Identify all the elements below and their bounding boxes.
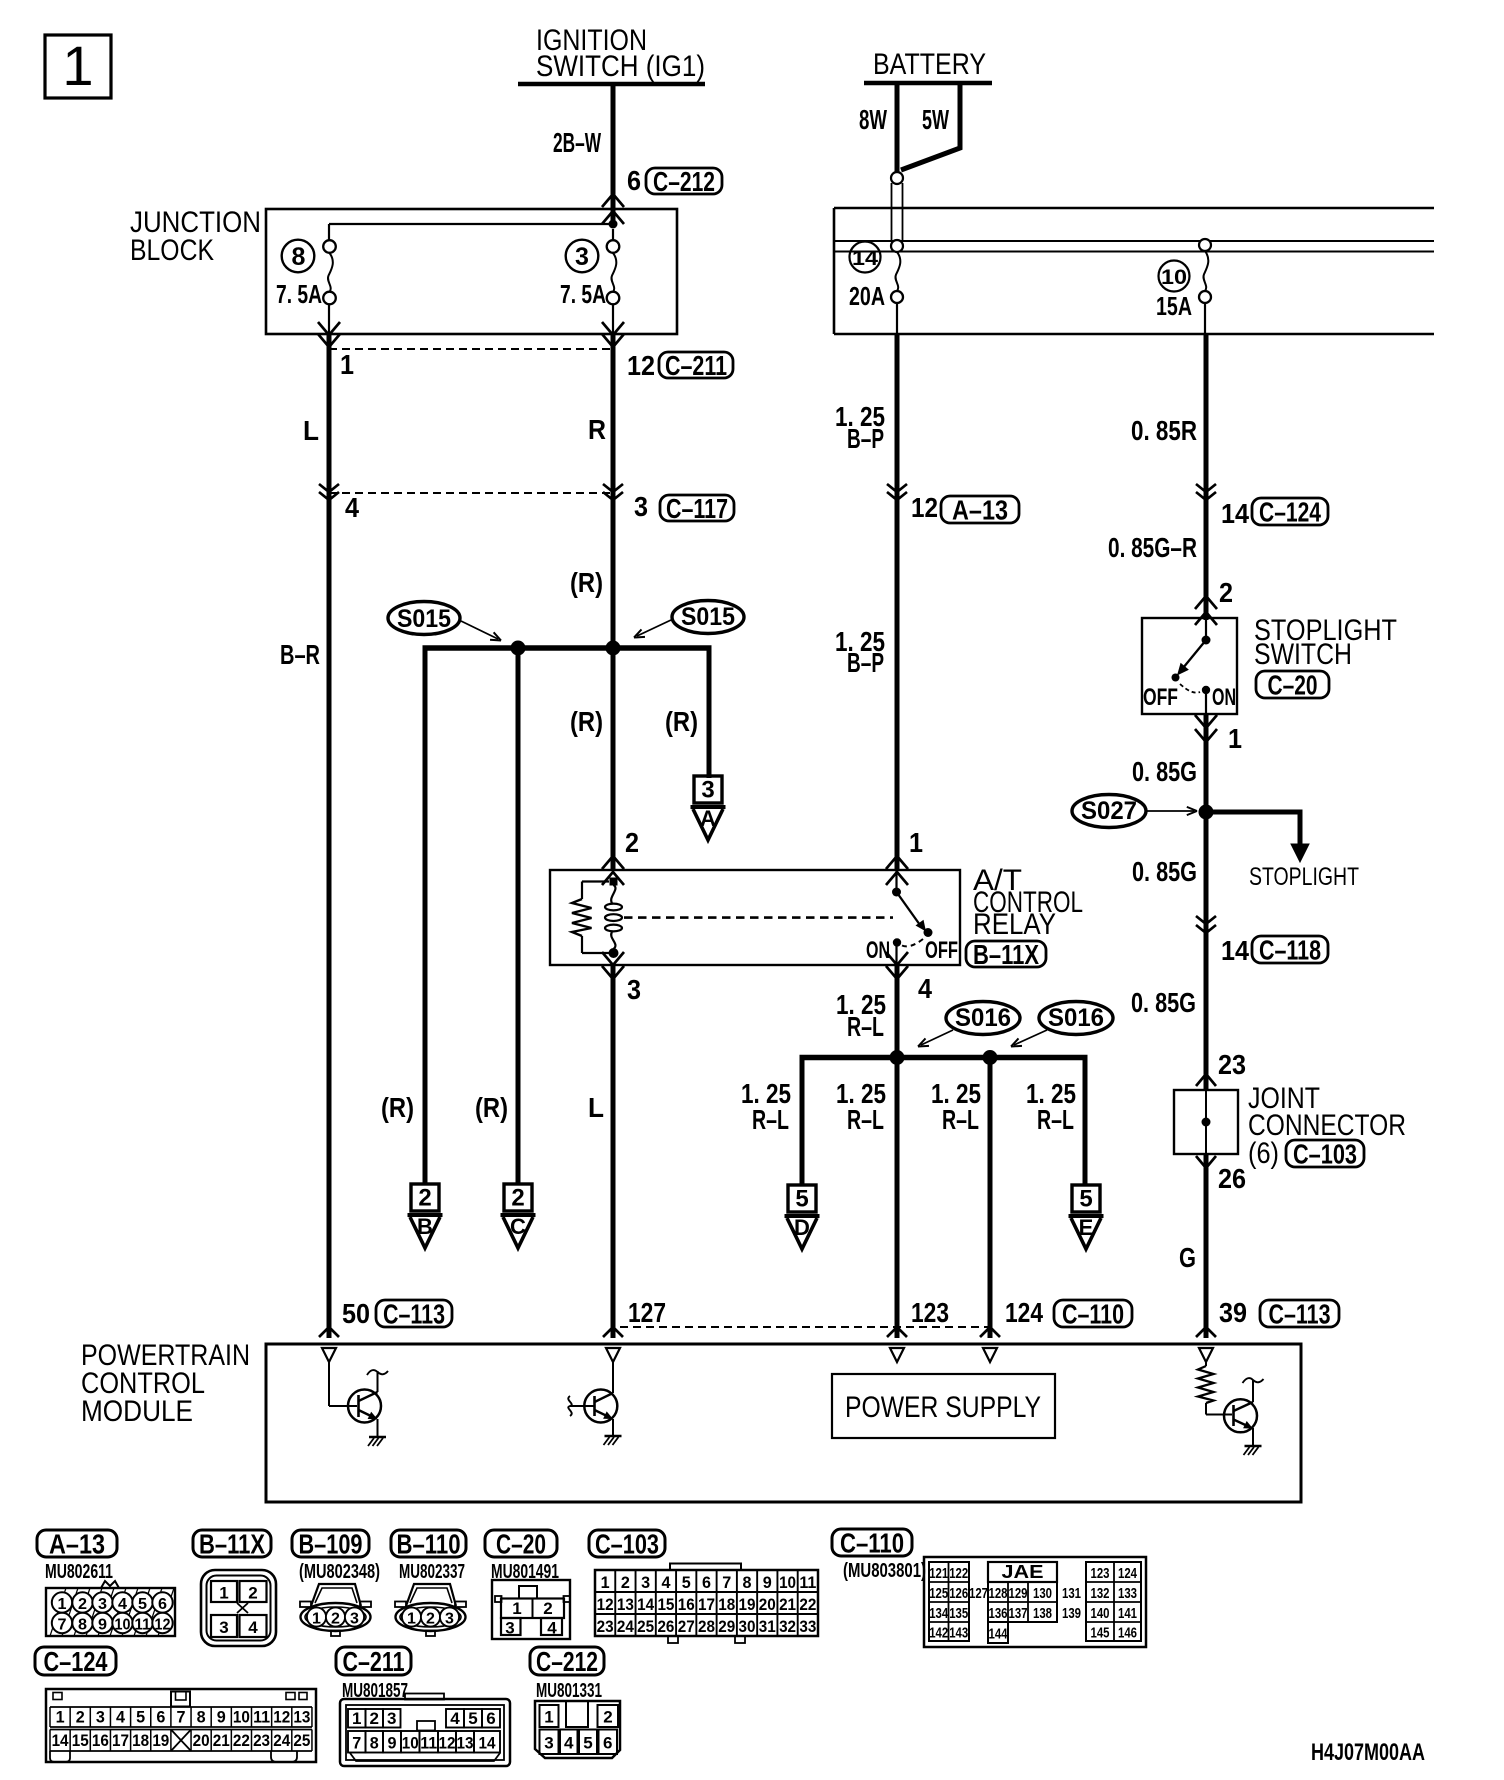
svg-text:23: 23 [253, 1731, 270, 1750]
wire label (R) branch B [381, 1092, 414, 1123]
svg-text:5: 5 [468, 1709, 477, 1728]
svg-text:1: 1 [512, 1599, 521, 1618]
svg-text:B–P: B–P [847, 423, 884, 454]
splice S027 arrow [1147, 807, 1197, 815]
relay/fuse box (right) [834, 208, 1434, 334]
wire R junction block to relay [611, 334, 616, 870]
connector C-20 pin diagram [492, 1580, 570, 1639]
svg-text:13: 13 [457, 1733, 474, 1752]
svg-text:13: 13 [617, 1595, 634, 1614]
svg-text:14: 14 [637, 1595, 654, 1614]
svg-text:10: 10 [233, 1708, 250, 1727]
svg-text:L: L [303, 415, 319, 446]
svg-text:8: 8 [743, 1573, 752, 1592]
wire end chevron at PCM pin 123 [887, 1327, 907, 1337]
A/T control relay box [550, 870, 960, 965]
svg-text:BLOCK: BLOCK [130, 234, 214, 267]
relay coil node [610, 878, 618, 886]
pin 50 label [342, 1298, 370, 1329]
wire 8W [895, 81, 900, 174]
svg-text:C–113: C–113 [1269, 1299, 1331, 1330]
splice S015 arrow left [461, 621, 501, 641]
joint connector (6) C-103 box [1174, 1090, 1238, 1154]
wire 1.25 R-L to PCM pin 123 [895, 1057, 900, 1338]
svg-text:(R): (R) [570, 567, 603, 598]
svg-text:144: 144 [989, 1625, 1008, 1642]
svg-text:127: 127 [628, 1297, 666, 1328]
svg-text:26: 26 [1218, 1163, 1246, 1194]
svg-text:S016: S016 [1048, 1004, 1104, 1032]
wire 1.25 B-P battery to relay [895, 334, 900, 870]
svg-text:39: 39 [1219, 1297, 1247, 1328]
wire label (R) upper [570, 567, 603, 598]
pin 6 label [627, 165, 641, 196]
svg-text:1: 1 [407, 1611, 416, 1628]
powertrain control module box [266, 1344, 1301, 1502]
splice S016 label right [1039, 1002, 1113, 1035]
svg-text:12: 12 [273, 1708, 290, 1727]
fuse 14 20A [849, 240, 903, 334]
svg-text:17: 17 [698, 1595, 715, 1614]
svg-text:4: 4 [918, 973, 932, 1004]
svg-text:7: 7 [176, 1708, 185, 1727]
svg-text:S015: S015 [397, 605, 451, 633]
svg-text:143: 143 [949, 1624, 968, 1641]
splice S027 label [1072, 795, 1146, 828]
svg-text:1: 1 [219, 1584, 228, 1603]
svg-text:3: 3 [505, 1619, 514, 1638]
wire label 0.85G above joint connector [1131, 987, 1196, 1018]
svg-text:18: 18 [718, 1595, 735, 1614]
svg-text:(R): (R) [475, 1092, 508, 1123]
svg-text:5: 5 [136, 1708, 145, 1727]
svg-text:134: 134 [929, 1605, 948, 1622]
wire branch to connector A [707, 648, 712, 778]
stoplight switch name [1254, 614, 1397, 671]
svg-text:14: 14 [52, 1731, 69, 1750]
svg-text:20A: 20A [849, 281, 885, 311]
wire branch to connector D [800, 1057, 805, 1185]
connector C-20 label [1256, 670, 1329, 701]
svg-text:4: 4 [345, 492, 359, 523]
svg-text:141: 141 [1118, 1605, 1137, 1622]
svg-text:29: 29 [718, 1617, 735, 1636]
connector A-13 chevrons [887, 484, 907, 500]
svg-text:30: 30 [739, 1617, 756, 1636]
off-page connector D [785, 1185, 820, 1249]
svg-text:3: 3 [634, 491, 648, 522]
relay mechanical dashed link [624, 916, 893, 919]
part number MU802337 [399, 1561, 465, 1583]
svg-text:10: 10 [402, 1733, 419, 1752]
wire label 1.25 B-P upper [835, 401, 885, 454]
svg-text:C–124: C–124 [44, 1646, 108, 1677]
stoplight switch entry chevrons [1195, 596, 1217, 625]
connector C-212 detail label [530, 1646, 604, 1677]
svg-text:C–118: C–118 [1259, 935, 1321, 966]
svg-text:6: 6 [156, 1708, 165, 1727]
svg-text:137: 137 [1009, 1605, 1028, 1622]
svg-text:8: 8 [197, 1708, 206, 1727]
svg-text:OFF: OFF [925, 937, 958, 964]
wire branch to stoplight [1206, 812, 1309, 862]
connector C-211 label [659, 350, 733, 381]
wire end chevron at PCM pin 124 [980, 1327, 1000, 1337]
svg-text:C–212: C–212 [536, 1646, 598, 1677]
svg-text:A–13: A–13 [952, 495, 1008, 526]
off-page connector C [501, 1184, 536, 1248]
svg-text:(R): (R) [665, 706, 698, 737]
svg-text:25: 25 [637, 1617, 654, 1636]
relay OFF label [925, 937, 958, 964]
svg-text:STOPLIGHT: STOPLIGHT [1249, 863, 1359, 891]
PCM pin 123 input [890, 1348, 904, 1362]
fuse 8 7.5A [276, 240, 336, 334]
svg-text:122: 122 [949, 1565, 968, 1582]
svg-text:2B–W: 2B–W [553, 127, 601, 158]
svg-text:B–R: B–R [280, 639, 320, 670]
wire 0.85G stoplight switch to splice [1204, 714, 1209, 1090]
svg-text:123: 123 [1091, 1565, 1110, 1582]
svg-text:C–20: C–20 [1268, 670, 1318, 701]
svg-text:26: 26 [657, 1617, 674, 1636]
svg-text:15: 15 [72, 1731, 89, 1750]
svg-text:SWITCH: SWITCH [1254, 638, 1352, 671]
wire 0.85R fuse 10 to stoplight switch [1204, 334, 1209, 620]
pin 4 label [345, 492, 359, 523]
splice S016 bus wire [800, 1055, 1088, 1061]
svg-text:8: 8 [292, 243, 306, 271]
node S016 splice dot right [983, 1050, 998, 1065]
svg-text:3: 3 [98, 1596, 107, 1613]
svg-text:2: 2 [625, 827, 639, 858]
relay switch contact [892, 870, 933, 965]
svg-text:23: 23 [597, 1617, 614, 1636]
wire label G [1179, 1242, 1196, 1273]
svg-text:21: 21 [213, 1731, 230, 1750]
svg-text:131: 131 [1062, 1585, 1081, 1602]
svg-text:12: 12 [627, 350, 655, 381]
svg-text:14: 14 [1221, 935, 1249, 966]
svg-text:5W: 5W [922, 104, 949, 135]
part number MU801331 [536, 1680, 602, 1702]
svg-text:4: 4 [564, 1734, 574, 1753]
svg-text:8: 8 [78, 1617, 87, 1634]
pin 124 label [1005, 1297, 1043, 1328]
svg-text:145: 145 [1091, 1624, 1110, 1641]
svg-text:3: 3 [96, 1708, 105, 1727]
connector C-103 pin diagram [595, 1564, 818, 1644]
power supply block in PCM [832, 1374, 1055, 1438]
svg-text:10: 10 [115, 1617, 131, 1634]
resistor R1 in PCM [1198, 1362, 1232, 1415]
svg-text:POWER SUPPLY: POWER SUPPLY [845, 1391, 1041, 1424]
pin 127 label [628, 1297, 666, 1328]
wire label L [303, 415, 319, 446]
connector C-110 label [1054, 1299, 1132, 1330]
splice S016 label left [946, 1002, 1020, 1035]
wire label 1.25 R-L pin 124 [931, 1078, 981, 1135]
svg-text:4: 4 [248, 1618, 258, 1637]
svg-text:11: 11 [135, 1617, 151, 1634]
svg-text:139: 139 [1062, 1605, 1081, 1622]
node S015 splice dot left [511, 641, 526, 656]
svg-text:13: 13 [293, 1708, 310, 1727]
svg-text:C–110: C–110 [1062, 1299, 1124, 1330]
wire end chevron at PCM pin 39 [1196, 1327, 1216, 1337]
svg-text:130: 130 [1033, 1585, 1052, 1602]
connector C-118 label [1252, 935, 1328, 966]
splice S015 label left [388, 602, 460, 635]
svg-text:7: 7 [58, 1617, 67, 1634]
wire end chevron at PCM pin 127 [603, 1327, 623, 1337]
svg-text:3: 3 [627, 974, 641, 1005]
svg-text:8: 8 [370, 1733, 379, 1752]
fuse 3 7.5A [560, 229, 619, 334]
node S016 splice dot left [890, 1050, 905, 1065]
svg-text:14: 14 [479, 1733, 496, 1752]
svg-text:15: 15 [657, 1595, 674, 1614]
svg-text:138: 138 [1033, 1605, 1052, 1622]
svg-text:3: 3 [219, 1618, 228, 1637]
svg-text:6: 6 [158, 1596, 167, 1613]
connector C-103 label [1286, 1139, 1364, 1170]
svg-text:12: 12 [597, 1595, 614, 1614]
svg-text:21: 21 [779, 1595, 796, 1614]
pin 14 label at C-124 [1221, 498, 1249, 529]
pin 14 label at C-118 [1221, 935, 1249, 966]
svg-text:1: 1 [1228, 723, 1242, 754]
svg-text:16: 16 [678, 1595, 695, 1614]
wire 1.25 R-L relay pin 4 to splice S016 [895, 965, 900, 1058]
pin 1 label at relay [909, 827, 923, 858]
svg-text:1: 1 [312, 1611, 321, 1628]
svg-text:136: 136 [989, 1605, 1008, 1622]
wire 2B-W from ignition switch [611, 82, 616, 222]
relay resistor [572, 882, 609, 954]
svg-text:C–113: C–113 [383, 1299, 445, 1330]
svg-text:9: 9 [98, 1617, 107, 1634]
connector C-117 label [660, 493, 734, 524]
svg-text:MU802337: MU802337 [399, 1561, 465, 1583]
pin 26 label [1218, 1163, 1246, 1194]
part number MU802611 [45, 1561, 113, 1583]
fuse 10 15A [1156, 239, 1211, 334]
svg-text:2: 2 [543, 1599, 552, 1618]
connector C-212 pin diagram [535, 1701, 620, 1758]
svg-text:4: 4 [116, 1708, 126, 1727]
connector C-211 pin diagram [340, 1694, 510, 1767]
svg-text:C: C [510, 1214, 526, 1239]
svg-text:1: 1 [56, 1708, 65, 1727]
pin 1 label below stoplight switch [1228, 723, 1242, 754]
A/T control relay name [973, 864, 1083, 941]
svg-text:2: 2 [76, 1708, 85, 1727]
svg-text:D: D [794, 1215, 810, 1240]
svg-text:B–109: B–109 [299, 1529, 363, 1560]
svg-text:R–L: R–L [847, 1011, 884, 1042]
part number (MU802348) [299, 1561, 380, 1583]
svg-text:R–L: R–L [942, 1104, 979, 1135]
svg-text:S015: S015 [681, 603, 735, 631]
svg-text:4: 4 [450, 1709, 460, 1728]
svg-text:2: 2 [418, 1185, 431, 1212]
joint connector entry chevron [1196, 1074, 1216, 1086]
svg-text:4: 4 [118, 1596, 127, 1613]
pin 23 label [1218, 1049, 1246, 1080]
svg-text:2: 2 [621, 1573, 630, 1592]
stoplight destination label [1249, 863, 1359, 891]
svg-text:9: 9 [217, 1708, 226, 1727]
svg-text:S016: S016 [955, 1004, 1011, 1032]
svg-text:OFF: OFF [1143, 684, 1178, 711]
wire label 1.25 R-L branch D [741, 1078, 791, 1135]
transistor Q3 in PCM [1224, 1378, 1264, 1446]
svg-text:5: 5 [138, 1596, 147, 1613]
connector C-117 chevrons on wire L [319, 484, 339, 500]
svg-text:10: 10 [779, 1573, 796, 1592]
svg-text:9: 9 [763, 1573, 772, 1592]
svg-text:19: 19 [152, 1731, 169, 1750]
joint connector name [1248, 1082, 1406, 1170]
svg-text:14: 14 [1221, 498, 1249, 529]
connector C-110 pin diagram [924, 1557, 1146, 1647]
wire label L lower [588, 1092, 604, 1123]
svg-text:146: 146 [1118, 1624, 1137, 1641]
connector B-11X label [966, 939, 1046, 970]
off-page connector B [408, 1184, 443, 1248]
svg-text:142: 142 [929, 1624, 948, 1641]
svg-text:C–211: C–211 [665, 350, 727, 381]
svg-text:11: 11 [420, 1733, 437, 1752]
wire end chevron at PCM pin 50 [319, 1327, 339, 1337]
node S027 splice dot [1199, 805, 1214, 820]
svg-text:11: 11 [253, 1708, 270, 1727]
wire L to PCM pin 50 [327, 334, 332, 1338]
pin 1 label [340, 349, 354, 380]
wire label (R) branch right [570, 706, 603, 737]
svg-text:3: 3 [350, 1611, 359, 1628]
svg-text:5: 5 [682, 1573, 691, 1592]
svg-text:C–20: C–20 [496, 1529, 546, 1560]
svg-text:2: 2 [511, 1185, 524, 1212]
connector C-113 label at pin 39 [1260, 1299, 1339, 1330]
svg-text:24: 24 [273, 1731, 290, 1750]
node S015 splice dot right [606, 641, 621, 656]
svg-text:7: 7 [352, 1733, 361, 1752]
connector A-13 pin diagram [46, 1581, 175, 1636]
svg-text:32: 32 [779, 1617, 796, 1636]
wire branch to connector B [423, 648, 428, 1184]
wire 5W [901, 81, 960, 170]
ignition switch (IG1) power source [518, 24, 705, 84]
stoplight switch box [1142, 618, 1237, 714]
connector C-124 label [1252, 497, 1328, 528]
splice S015 arrow right [634, 620, 671, 638]
connector C-117 chevrons on wire R [603, 484, 623, 500]
svg-text:SWITCH (IG1): SWITCH (IG1) [536, 50, 705, 83]
svg-text:2: 2 [78, 1596, 87, 1613]
svg-text:126: 126 [949, 1585, 968, 1602]
connector C-117 dashed boundary [329, 492, 613, 494]
svg-text:(6): (6) [1248, 1137, 1279, 1170]
transistor Q1 in PCM [329, 1362, 388, 1437]
connector C-211 dashed boundary [329, 348, 613, 350]
powertrain control module name [81, 1339, 250, 1428]
wire label 0.85G below splice [1132, 856, 1197, 887]
svg-text:123: 123 [911, 1297, 949, 1328]
svg-text:22: 22 [799, 1595, 816, 1614]
svg-text:(MU802348): (MU802348) [299, 1561, 380, 1583]
svg-text:6: 6 [702, 1573, 711, 1592]
connector C-113 label [376, 1299, 452, 1330]
connector B-109 pin diagram [300, 1584, 371, 1636]
junction block internal wire [329, 224, 613, 241]
wire label 0.85G upper [1132, 756, 1197, 787]
svg-text:6: 6 [603, 1734, 612, 1753]
connector B-110 detail label [391, 1529, 466, 1560]
PCM pin 127 input [606, 1348, 620, 1362]
drawing number H4J07M00AA [1311, 1739, 1425, 1766]
svg-text:50: 50 [342, 1298, 370, 1329]
connector C-212 label [646, 166, 722, 197]
svg-text:2: 2 [331, 1611, 340, 1628]
pin 3 label below relay [627, 974, 641, 1005]
splice S016 arrow left [918, 1030, 953, 1047]
svg-text:(R): (R) [570, 706, 603, 737]
battery power source [864, 48, 992, 83]
svg-text:7. 5A: 7. 5A [560, 279, 606, 309]
connector C-110 dashed boundary [620, 1326, 990, 1328]
connector C-20 detail label [485, 1529, 557, 1560]
ground for Q1 [368, 1437, 386, 1446]
svg-text:(R): (R) [381, 1092, 414, 1123]
relay coil [605, 885, 622, 949]
svg-text:R–L: R–L [752, 1104, 789, 1135]
svg-text:2: 2 [426, 1611, 435, 1628]
svg-text:C–117: C–117 [666, 493, 728, 524]
svg-text:5: 5 [1079, 1186, 1092, 1213]
svg-text:2: 2 [248, 1584, 257, 1603]
fusible link terminal [891, 172, 903, 241]
svg-text:125: 125 [929, 1585, 948, 1602]
svg-text:12: 12 [911, 492, 938, 523]
svg-text:R: R [588, 414, 606, 445]
node junction dot at C-212 feed [609, 220, 618, 229]
wire label 1.25 R-L branch E [1026, 1078, 1076, 1135]
pin 4 label below relay [918, 973, 932, 1004]
svg-text:B–110: B–110 [397, 1529, 461, 1560]
svg-text:6: 6 [627, 165, 641, 196]
svg-text:1: 1 [58, 1596, 67, 1613]
relay pin 2 entry chevrons [602, 856, 624, 885]
svg-text:RELAY: RELAY [973, 908, 1056, 941]
wire label 0.85R [1131, 415, 1197, 446]
svg-text:ON: ON [866, 937, 890, 964]
svg-text:133: 133 [1118, 1585, 1137, 1602]
svg-text:4: 4 [547, 1619, 557, 1638]
connector B-11X pin diagram [201, 1570, 276, 1646]
svg-text:5: 5 [795, 1186, 808, 1213]
svg-text:3: 3 [701, 777, 714, 804]
svg-text:ON: ON [1212, 684, 1236, 711]
wire L relay to PCM pin 127 [611, 965, 616, 1338]
svg-text:27: 27 [678, 1617, 695, 1636]
svg-text:BATTERY: BATTERY [873, 48, 986, 81]
pin 3 label [634, 491, 648, 522]
PCM pin 50 input [322, 1348, 336, 1362]
svg-text:C–211: C–211 [343, 1646, 405, 1677]
